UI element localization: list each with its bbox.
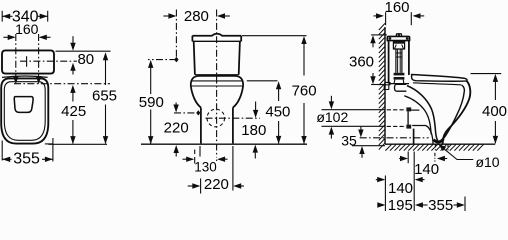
side view: pedestal rear foot edge: [413, 129, 415, 144]
front view: tank lid bottom line: [192, 40, 241, 42]
side view: flush pipe cylinder: [395, 84, 407, 91]
side view: lid bolt left: [389, 37, 392, 40]
svg-text:80: 80: [77, 51, 94, 68]
front view: vertical centre axis dash-dot: [216, 10, 218, 158]
dimension 160 right: right arrow: [414, 15, 424, 17]
left view: water surface shape: [14, 97, 33, 113]
dimension 400: line with arrows: [493, 74, 498, 82]
tick x=414 (shared rows): [413, 152, 415, 212]
side view: wall screw block upper: [406, 107, 411, 111]
side view: wall screw block lower: [406, 125, 411, 129]
left view: bowl rear rim line: [2, 76, 48, 77]
dimension 130: left arrow: [183, 158, 193, 160]
tank top edge extension line (reference for 80/655): [56, 50, 111, 52]
dimension 425: line with arrows: [70, 85, 75, 93]
dimension 220 left: bottom arrow (up): [175, 151, 177, 157]
floor hatching: [385, 144, 483, 150]
dimension 140 upper: right arrow: [439, 158, 448, 160]
dimension 280: left dash-dot reference (L-shape): [175, 10, 177, 60]
side view: flush valve base dark bands: [394, 73, 405, 76]
svg-text:590: 590: [139, 94, 164, 111]
left view: bowl outer outline (plan): [1, 78, 48, 143]
floor extension line left of wall: [352, 145, 385, 147]
dimension 35: bottom arrow (up): [361, 152, 363, 158]
bowl bottom extension line: [48, 143, 107, 145]
tick x=408 (row 140 upper): [407, 152, 409, 164]
dimension 655: line with arrows: [103, 52, 108, 60]
side view: tank front edge: [408, 41, 410, 75]
dimension 35: top arrow (down): [360, 127, 362, 132]
wall surface line: [384, 27, 386, 144]
floor line (side view): [385, 143, 495, 145]
tank centre cross: vertical stroke: [26, 56, 28, 67]
dimension 760: line with arrows: [301, 36, 306, 44]
dimension ø102: bottom arrow (up): [330, 132, 332, 138]
side view: tank rear edge: [388, 41, 390, 84]
dimension 220 left: top arrow (down): [175, 103, 177, 107]
svg-text:180: 180: [241, 122, 266, 139]
dimension 450: line with arrows: [276, 81, 281, 89]
dimension 195: left arrow: [378, 204, 385, 206]
front view: seat level line: [192, 80, 243, 82]
dimension 160: right arrow: [40, 36, 50, 38]
svg-text:280: 280: [184, 8, 209, 25]
dimension 280: left arrow: [163, 15, 174, 17]
long dash-dot reference line (top of bowl level): [14, 83, 110, 85]
dimension 140 lower: right arrow: [416, 179, 424, 181]
dimension 180: dash-dot reference line: [206, 117, 260, 119]
front view: floor line: [141, 143, 307, 145]
svg-text:130: 130: [194, 160, 217, 175]
left view: bowl inner rim line: [4, 82, 45, 141]
tick x=385 (wall extension rows): [384, 176, 386, 212]
side view: flush valve tube: [395, 49, 397, 73]
svg-text:160: 160: [384, 0, 409, 16]
front view: rim bottom line: [191, 85, 243, 87]
pedestal left edge extension below floor: [199, 146, 201, 157]
dimension 450: top extension line: [247, 80, 278, 82]
dimension ø102: upper line: [322, 109, 386, 111]
svg-text:220: 220: [164, 119, 189, 136]
svg-text:760: 760: [292, 83, 317, 100]
side view: tank bottom line: [389, 83, 409, 85]
svg-text:140: 140: [388, 180, 413, 197]
side view: rear foot outline: [412, 126, 433, 144]
outlet axis dash-dot tick: [434, 153, 436, 162]
side view: channel lower line: [404, 96, 431, 135]
dimension 360: line with arrows: [370, 35, 375, 43]
side view: lid button dot: [398, 34, 400, 36]
dimension 590: line with arrows: [148, 60, 153, 68]
side view: tank lid: [387, 36, 409, 40]
dimension 280: right arrow: [219, 15, 230, 17]
dimension 140 upper: left arrow: [399, 158, 406, 160]
tank centre cross: horizontal dash-dot (reference for 80): [20, 60, 77, 62]
svg-text:160: 160: [15, 21, 39, 37]
dimension ø102: top arrow (down): [330, 96, 332, 104]
dimension 355 left: line+arrows: [2, 158, 11, 160]
dimension 760: top extension line: [242, 35, 307, 37]
svg-text:355: 355: [428, 197, 453, 214]
svg-text:450: 450: [265, 104, 290, 121]
dimension 355 left: right tick + short extension: [52, 138, 54, 162]
fixing hole centerline right (with down arrow): [38, 34, 40, 79]
side view: water inlet fitting at wall: [384, 82, 390, 89]
dimension 360: bottom extension line: [371, 84, 386, 86]
side view: channel top to trap left side: [407, 86, 438, 142]
side view: lid bolt right: [406, 37, 409, 40]
left view: cistern tank outline (plan): [2, 50, 54, 73]
dimension 360: top extension line: [371, 34, 387, 36]
dimension 220 bottom: left tick: [200, 179, 202, 194]
side view: outlet dashes below floor: [434, 144, 436, 150]
dimension 220 left: diamond marker: [196, 110, 200, 115]
svg-text:ø10: ø10: [475, 154, 499, 170]
fixing hole centerline left (with down arrow): [15, 34, 17, 79]
front view: tank body sides: [194, 41, 195, 74]
dimension 160 right: left tick: [385, 12, 387, 25]
side view: seat underside line: [413, 83, 462, 85]
dimension 140 lower: left arrow: [376, 179, 384, 181]
dimension 355 right: right tick: [464, 197, 466, 212]
side view: bowl front profile: [443, 81, 471, 144]
dimension 280: corner diamond marker: [174, 57, 178, 63]
dimension 160 right: right tick: [410, 12, 412, 25]
dimension 400: top extension line: [471, 73, 502, 75]
side view: wall screw dashed line upper: [387, 109, 406, 111]
front view: tank lid sides: [191, 36, 193, 42]
dimension ø102: lower line: [322, 125, 386, 127]
dimension 35: dash-dot reference line: [360, 137, 429, 139]
svg-text:195: 195: [388, 197, 413, 214]
svg-text:ø102: ø102: [316, 109, 348, 125]
wall hatching: [379, 23, 385, 149]
svg-text:140: 140: [414, 161, 439, 178]
side view: stub from upper screw: [411, 109, 419, 111]
dimension 180: top arrow (down): [255, 102, 257, 113]
dimension 80: top arrow (down): [72, 36, 74, 45]
svg-text:355: 355: [13, 151, 40, 168]
dimension 160 right: left arrow: [374, 15, 383, 17]
dimension 180: bottom arrow (up): [254, 150, 256, 159]
dimension 340: left extension tick: [1, 11, 3, 22]
front view: tank lid top with button bump: [192, 34, 241, 36]
side view: wall screw dashed line lower: [387, 125, 406, 127]
front view: bowl sides narrowing to pedestal: [191, 86, 201, 108]
dimension 220 bottom: right arrow: [235, 185, 244, 187]
side view: seat wedge: [412, 75, 467, 82]
front view: bowl rim outer: [191, 76, 243, 86]
side view: flush valve tube ticks: [396, 52, 402, 54]
dimension 130: left tick (dashed): [194, 150, 196, 155]
dimension 80: bottom arrow (up): [72, 68, 74, 75]
side view: rear vertical between screws: [407, 111, 409, 124]
side view: flush valve head box: [393, 41, 404, 49]
side view: flush valve legs: [393, 80, 396, 84]
dimension 355 left: left tick: [1, 141, 3, 161]
front view: pedestal sides: [200, 108, 202, 144]
label ø10: leader line with arrow: [440, 146, 473, 160]
dimension 130: right arrow: [219, 158, 228, 160]
svg-text:360: 360: [349, 54, 374, 71]
side view: lid button: [396, 34, 401, 37]
dimension 220 left: dash-dot reference line: [174, 112, 197, 114]
side view: trap bottom thick arc: [434, 139, 444, 142]
side view: trap right side / bowl inner line: [439, 85, 465, 141]
dimension 220 bottom: left arrow: [188, 185, 199, 187]
front view: tank bottom joint line: [195, 74, 239, 76]
front view: soil outlet dashed circle: [207, 109, 225, 127]
dimension 160: left arrow: [3, 36, 14, 38]
svg-text:220: 220: [204, 176, 229, 193]
svg-text:400: 400: [482, 103, 507, 120]
dimension 355 right: left arrow: [417, 204, 428, 206]
dimension 220 bottom: right tick (pedestal edge extension): [232, 146, 234, 191]
dimension 355 right: right arrow: [454, 204, 464, 206]
dimension 340: line+arrows: [2, 15, 12, 17]
dimension 340: right extension tick: [47, 11, 49, 22]
svg-text:425: 425: [61, 103, 86, 120]
svg-text:655: 655: [92, 88, 117, 105]
